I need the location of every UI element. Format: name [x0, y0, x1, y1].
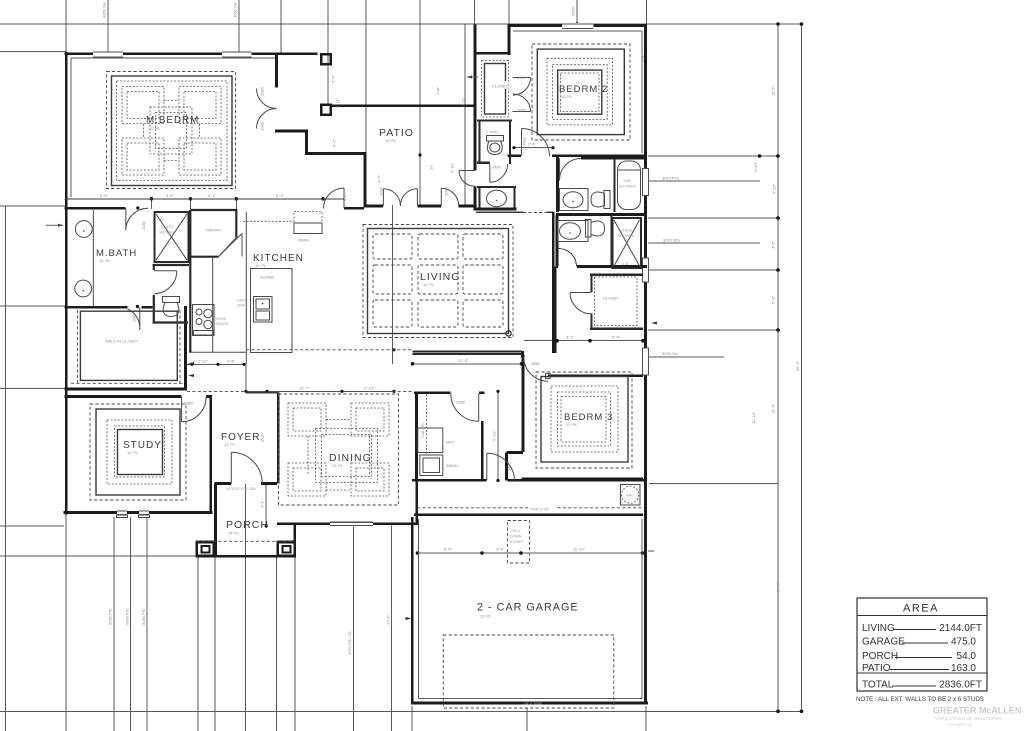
window: right 3010 RSL	[642, 258, 648, 282]
dashed: garage door	[443, 635, 614, 708]
inner face: garage right	[641, 519, 643, 699]
post: patio lower	[321, 105, 331, 115]
window: BEDRM2 north	[562, 23, 594, 29]
dashed: living north opening	[523, 211, 547, 213]
svg-text:10'-7": 10'-7"	[299, 385, 310, 390]
wall: utility west	[415, 393, 418, 481]
wall: M.BEDRM north exterior	[65, 52, 318, 55]
wall: BEDRM3 south	[522, 477, 643, 480]
dim dot top x577	[575, 22, 579, 26]
svg-text:2680: 2680	[522, 136, 527, 146]
dim line: hall row y340.7	[524, 340, 644, 342]
table: GARAGE leader	[902, 642, 948, 644]
svg-text:2080: 2080	[517, 108, 527, 113]
label: CLOSET bedrm3	[601, 293, 621, 301]
ceiling: DINING tray outer dashed	[279, 394, 399, 505]
wall: jog to patio	[305, 152, 367, 155]
dashed: kitchen upper cabinets	[243, 220, 294, 222]
witness line: top x577	[576, 0, 578, 24]
dim line: left at study front	[0, 525, 64, 527]
ceiling: DINING key TL	[288, 403, 326, 436]
witness line: bottom x130.6 study window	[130, 517, 132, 731]
wall: study east	[209, 395, 212, 514]
ceiling: DINING key connectors	[308, 420, 370, 491]
svg-text:4'-7": 4'-7"	[377, 174, 382, 183]
svg-text:SHOWER: SHOWER	[159, 231, 176, 235]
svg-text:21'-8": 21'-8"	[776, 581, 781, 592]
fixture: bath3 glass shower	[613, 218, 642, 268]
wall: hall stub at kitchen door	[344, 207, 364, 210]
wall: bath2 north	[556, 157, 647, 160]
svg-text:GLASS: GLASS	[620, 229, 633, 233]
arrow: garage wall leader	[406, 617, 412, 620]
svg-text:2880: 2880	[531, 361, 541, 366]
svg-text:TIRE STOP: TIRE STOP	[530, 508, 550, 512]
ceiling: BEDRM3 tray wavy	[558, 392, 611, 446]
wall: master WC south	[153, 321, 189, 323]
door: BEDRM2 entry	[522, 129, 550, 157]
svg-text:PULL: PULL	[512, 529, 521, 533]
ceiling: LIVING beam cell r2c1	[373, 265, 412, 294]
svg-text:5'-10": 5'-10"	[772, 183, 777, 194]
dim dots bath hall	[512, 146, 515, 149]
wall: dining front exterior	[277, 522, 419, 525]
witness line: top x366 patio left	[365, 0, 367, 153]
witness line: bottom x65.8	[65, 515, 67, 731]
wall: walk-in closet south	[65, 388, 187, 391]
wall: master WC west	[153, 265, 155, 323]
door: patio single	[441, 188, 458, 206]
table: TOTAL leader	[892, 685, 936, 687]
svg-text:GREATER McALLEN: GREATER McALLEN	[933, 706, 1021, 716]
ceiling: M.BEDRM tray dashed 2	[117, 81, 228, 181]
window: M.BEDRM north 1	[93, 51, 123, 57]
wall: BEDRM2 north exterior	[508, 24, 648, 27]
svg-text:3'-5": 3'-5"	[331, 74, 336, 83]
witness line: front door centre x245.5	[245, 484, 247, 731]
ceiling: BEDRM2 tray wavy	[552, 65, 607, 120]
closet: walk-in shelf face	[80, 311, 177, 380]
dim line: left stub above wall corner	[0, 51, 66, 53]
table: LIVING leader	[893, 629, 936, 631]
ceiling: STUDY tray wavy	[115, 426, 165, 477]
wall: left exterior	[65, 52, 68, 515]
wall: M.BEDRM east	[275, 54, 278, 133]
dashed: bedrm2 closet shelves	[482, 61, 509, 118]
svg-text:2080: 2080	[517, 75, 527, 80]
witness line: top x474	[474, 0, 476, 24]
dim dots master row	[150, 197, 154, 201]
svg-text:DISH: DISH	[237, 299, 246, 303]
svg-text:5060 PIC: 5060 PIC	[141, 608, 146, 625]
wall: powder room east	[513, 187, 515, 210]
ceiling: LIVING beam cell r2c3	[463, 265, 503, 294]
door: hall to patio	[459, 171, 475, 187]
ceiling: BEDRM2 tray dashed2	[547, 58, 613, 125]
ceiling: LIVING solid	[368, 229, 509, 334]
wall: BEDRM2 west	[508, 25, 511, 55]
svg-text:PORCH: PORCH	[226, 519, 269, 531]
ceiling: BEDRM3 tray outer dashed	[536, 372, 632, 468]
dim line: left at master bath top	[0, 205, 66, 207]
svg-text:6'-8": 6'-8"	[444, 547, 453, 552]
svg-text:3080: 3080	[379, 186, 384, 196]
door: bedrm3 closet	[570, 293, 592, 314]
door: bath3 entry	[559, 249, 577, 267]
witness line: bottom x147 study window	[146, 517, 148, 731]
svg-text:10' PL: 10' PL	[385, 138, 397, 143]
witness line: top x66	[65, 0, 67, 53]
svg-text:ISLAND: ISLAND	[260, 275, 275, 280]
sill: study window 1	[117, 515, 128, 518]
svg-text:2080: 2080	[260, 121, 265, 131]
svg-text:CAB ABV: CAB ABV	[421, 422, 425, 438]
wall: powder block closet floor	[477, 119, 512, 121]
wall: dining east	[415, 393, 418, 524]
door: powder wc	[490, 164, 508, 182]
dim dots right column	[776, 22, 780, 26]
table: total line	[857, 672, 987, 674]
dashed: utility cab abv	[426, 394, 428, 455]
svg-text:17'-6": 17'-6"	[386, 614, 391, 625]
wall: study north	[65, 395, 212, 398]
window: study front 2	[139, 510, 149, 515]
dim line: right row y270	[648, 269, 778, 271]
svg-text:2880: 2880	[184, 401, 194, 406]
fixture: bath2 toilet	[591, 191, 610, 209]
ceiling: M.BEDRM key connectors	[144, 101, 200, 161]
door: garage entry	[487, 453, 515, 481]
wall: patio west	[364, 152, 367, 207]
ceiling: LIVING beam cell r3c3	[463, 300, 503, 327]
ceiling: STUDY tray solid	[96, 409, 180, 495]
window: study front 1	[117, 510, 127, 515]
door: M.BEDRM double entry upper leaf	[257, 89, 277, 109]
wall: bath3 west	[556, 215, 559, 267]
svg-text:TOTAL: TOTAL	[862, 680, 894, 691]
wall: utility north	[414, 391, 485, 394]
wall: shower3 west	[610, 215, 612, 269]
svg-text:14'-6": 14'-6"	[771, 403, 776, 414]
svg-text:3080: 3080	[444, 186, 449, 196]
svg-text:WASH: WASH	[446, 463, 458, 468]
wall: patio south with door openings	[364, 204, 477, 207]
wall: hall east of living	[554, 267, 557, 353]
svg-text:10' PL: 10' PL	[423, 282, 435, 287]
wall: foyer east / dining west	[277, 393, 280, 484]
svg-text:SHOWER: SHOWER	[618, 234, 635, 238]
wall: BEDRM2 south	[508, 154, 648, 157]
leader line: left	[46, 224, 62, 226]
dim line: right window 3070 y181	[648, 180, 760, 182]
fixture: kitchen cabinet line south	[189, 351, 246, 353]
ceiling: M.BEDRM key TL	[122, 87, 164, 124]
door: patio french pair leaf L	[383, 189, 400, 206]
door: bedrm2 closet double lower	[513, 94, 531, 112]
table: AREA outline	[857, 598, 987, 691]
svg-text:5'-8": 5'-8"	[260, 433, 265, 442]
svg-text:54.0: 54.0	[957, 651, 977, 662]
svg-text:DOWN: DOWN	[510, 535, 522, 539]
svg-text:8'-2": 8'-2"	[276, 193, 285, 198]
inner face: BEDRM2 right	[641, 31, 643, 153]
wall: powder room west	[479, 187, 481, 209]
wall: wc room west	[479, 121, 481, 165]
fixture: kitchen island	[251, 269, 293, 353]
dashed: garage tire stop	[417, 507, 643, 509]
svg-text:7'-8": 7'-8"	[436, 86, 441, 95]
ceiling: M.BEDRM key BL	[122, 138, 164, 175]
fixture: powder sink	[487, 190, 507, 206]
svg-text:2'-4": 2'-4"	[528, 142, 537, 147]
svg-text:10' PL: 10' PL	[566, 422, 578, 427]
dim line: right window 3010 y243	[648, 242, 760, 244]
ceiling: STUDY tray outer dashed	[90, 404, 186, 500]
witness line: top x108 window	[107, 0, 109, 53]
fixture: bath2 vanity	[560, 189, 589, 211]
svg-text:163.0: 163.0	[951, 663, 976, 674]
inner face: garage left	[418, 519, 420, 699]
svg-text:3050 SH: 3050 SH	[233, 2, 238, 18]
ceiling: LIVING beam cell r1c2	[418, 234, 458, 259]
wall: powder room north	[477, 186, 516, 188]
svg-text:2080: 2080	[141, 220, 146, 230]
witness line: bottom x353 dining window	[352, 526, 354, 731]
svg-text:3'-0": 3'-0"	[771, 240, 776, 249]
svg-text:12' PL: 12' PL	[99, 258, 111, 263]
post: patio upper	[321, 54, 331, 64]
dim line: full-width top string	[0, 23, 802, 25]
svg-text:CLOSET: CLOSET	[492, 84, 509, 89]
wall: hall north of foyer (thin)	[246, 392, 278, 394]
witness line: bottom x295 porch post	[294, 557, 296, 731]
ceiling: DINING key TR	[351, 403, 389, 436]
wall: tub west	[613, 158, 615, 212]
dim line: left at porch bottom	[0, 555, 197, 557]
svg-text:HOOD: HOOD	[216, 317, 227, 321]
svg-text:www.gmar.org: www.gmar.org	[948, 723, 972, 727]
dim line: left at closet/study wall	[0, 388, 66, 390]
svg-text:SINK: SINK	[237, 304, 246, 308]
inner face: BEDRM2 top	[513, 30, 642, 32]
svg-text:2144.0FT: 2144.0FT	[939, 623, 982, 634]
svg-text:10': 10'	[429, 165, 434, 170]
wall: M.BATH north	[65, 207, 126, 210]
ceiling: LIVING beam cell r3c1	[373, 300, 412, 327]
dashed: porch line	[197, 540, 296, 542]
svg-text:2'-8": 2'-8"	[640, 53, 645, 62]
ceiling: M.BEDRM tray solid	[112, 76, 233, 186]
ceiling: M.BEDRM key TR	[179, 87, 221, 124]
wall: living south jamb	[521, 351, 524, 358]
svg-text:5'-4": 5'-4"	[612, 335, 621, 340]
svg-text:3'-2": 3'-2"	[566, 335, 575, 340]
svg-text:12'-5": 12'-5"	[771, 85, 776, 96]
wall: patio right vertical / bath block west	[474, 25, 477, 208]
wall: porch east upper	[293, 524, 296, 556]
dim line: right row y483	[649, 482, 778, 484]
arrow: walkin closet wall leader 2	[188, 374, 194, 377]
inner face: M.BEDRM left	[70, 58, 72, 197]
window: right 3050 SH	[642, 348, 648, 375]
svg-text:3'-8": 3'-8"	[496, 547, 505, 552]
fixture: tub shower	[618, 161, 641, 210]
dim line: full-width bottom string	[0, 710, 802, 712]
witness stem: x236.3	[235, 199, 237, 209]
dim line: right row y218	[648, 217, 778, 219]
arrow: closet leader	[466, 76, 472, 79]
fixture: master wc toilet	[163, 297, 180, 317]
svg-text:2'-10": 2'-10"	[198, 358, 209, 363]
arrow: right wall leader	[651, 322, 657, 325]
inner face: M.BEDRM top	[71, 57, 275, 59]
fixture: kitchen counter west	[212, 257, 214, 352]
leader line: closet	[468, 76, 478, 78]
witness line: bottom garage right wall ext	[645, 706, 647, 731]
svg-text:11'-10": 11'-10"	[751, 411, 756, 424]
svg-text:9'-11": 9'-11"	[335, 98, 340, 108]
dim line: left at master bath bottom	[0, 305, 66, 307]
ceiling: DINING key BR	[351, 463, 389, 496]
fixture: mbath sink 1	[75, 221, 92, 238]
fixture: kitchen counter east	[245, 212, 247, 364]
dim line: hall vertical x498	[497, 391, 499, 480]
window: dining front 4070	[330, 521, 373, 526]
svg-text:RANGE: RANGE	[216, 322, 229, 326]
svg-text:3'-10": 3'-10"	[450, 162, 455, 173]
svg-text:NOTE : ALL EXT. WALLS TO BE 2: NOTE : ALL EXT. WALLS TO BE 2 x 6 STUDS	[856, 696, 984, 703]
witness line: top x646	[646, 0, 648, 24]
svg-text:3050: 3050	[571, 6, 576, 16]
dim line: right inner x778	[777, 24, 779, 711]
svg-text:4070 PIC. GL: 4070 PIC. GL	[347, 630, 352, 655]
ceiling: STUDY tray solid2	[118, 430, 163, 475]
ceiling: LIVING beam cell r1c1	[373, 234, 412, 259]
svg-text:2080: 2080	[260, 86, 265, 96]
svg-text:2680: 2680	[456, 400, 466, 405]
fixture: mbath sink 2	[75, 280, 92, 297]
ceiling: BEDRM3 tray dashed3	[561, 397, 606, 443]
ceiling: M.BEDRM key BR	[179, 138, 221, 175]
svg-text:4'-1": 4'-1"	[260, 499, 265, 508]
fixture: master glass shower	[155, 212, 189, 262]
witness line: bottom x214.8 porch post	[214, 557, 216, 731]
witness line: bottom x197.8 porch post	[197, 557, 199, 731]
svg-text:DRY: DRY	[446, 440, 455, 445]
dim dots foyer hall row	[244, 390, 247, 393]
witness line: bottom x391.7 dining	[391, 526, 393, 731]
inner face: garage bottom	[419, 698, 643, 700]
svg-text:W/ 2070 STR. ABV: W/ 2070 STR. ABV	[226, 487, 257, 491]
door: master closet from bath	[128, 307, 140, 330]
svg-text:4'-0": 4'-0"	[343, 192, 348, 201]
ceiling: BEDRM2 tray dashed3	[561, 73, 600, 112]
wall: garage/hall north	[412, 479, 645, 482]
svg-text:16'-0 6080: 16'-0 6080	[524, 702, 542, 706]
svg-text:3'-8": 3'-8"	[166, 193, 175, 198]
fixture: powder toilet	[487, 136, 504, 155]
witness line: living x392	[391, 205, 393, 364]
dashed: hall line west of living	[246, 349, 412, 351]
fixture: refrigerator	[294, 212, 322, 234]
svg-text:2 - CAR GARAGE: 2 - CAR GARAGE	[477, 602, 579, 614]
ceiling: LIVING beam cell r2c2	[418, 265, 458, 294]
ceiling: LIVING beam cell r1c3	[463, 234, 503, 259]
ceiling: LIVING beam cell r3c2	[418, 300, 458, 327]
fixture: kitchen range	[193, 305, 215, 336]
door: kitchen hall	[324, 188, 345, 208]
wall: bath3 south	[556, 265, 647, 268]
svg-text:5060 PIC: 5060 PIC	[125, 608, 130, 625]
wall: patio north	[331, 104, 476, 107]
witness line: bottom x113.8 study window	[113, 517, 115, 731]
svg-text:5060 PIC: 5060 PIC	[108, 608, 113, 625]
wall: mbedrm corner jog horizontal	[275, 130, 308, 133]
wall: bedrm3 closet south	[590, 328, 643, 330]
wall: bedrm3 west jog	[507, 453, 524, 481]
ceiling: BEDRM2 tray solid2	[558, 70, 602, 114]
ceiling: BEDRM2 tray outer dashed	[532, 44, 630, 140]
fixture: water heater	[621, 485, 641, 506]
wall: porch west	[214, 484, 217, 556]
dim tick: garage row stub y551	[648, 550, 654, 552]
dim dots hall vertical x498	[496, 390, 499, 393]
wall: bedrm3 closet west	[590, 274, 592, 331]
ceiling: DINING key BL	[288, 463, 326, 496]
wall: living south	[412, 352, 522, 355]
svg-text:11'-10": 11'-10"	[573, 547, 586, 552]
door: study entry	[182, 397, 206, 422]
fixture: bath3 toilet	[586, 220, 605, 238]
svg-text:2836.0FT: 2836.0FT	[939, 680, 982, 691]
svg-text:2080: 2080	[132, 312, 137, 322]
wall: walk-in closet east	[184, 306, 187, 389]
wall: M.BEDRM south (thin)	[65, 198, 344, 200]
svg-text:4'-4": 4'-4"	[208, 193, 217, 198]
dim line: garage row y553	[417, 552, 643, 554]
ceiling: STUDY tray dashed2	[107, 420, 172, 484]
post: porch left	[197, 542, 214, 556]
dim dot hall dashes	[392, 348, 395, 351]
dim dots porch vertical	[265, 482, 268, 485]
wall: study front exterior	[64, 511, 213, 514]
ceiling: BEDRM2 tray solid	[537, 49, 624, 135]
door: utility entry	[451, 394, 479, 422]
witness line: top x328	[327, 0, 329, 105]
label: TIRE STOP	[529, 506, 555, 512]
dim dots living opening	[411, 362, 415, 366]
closet: walk-in rod dash right	[179, 310, 181, 384]
dim line: living opening row y363.8	[412, 363, 522, 365]
wall: kitchen west cabinets	[189, 210, 191, 352]
svg-text:65'-6": 65'-6"	[795, 360, 800, 371]
table: PORCH leader	[895, 657, 952, 659]
svg-text:M.BEDRM: M.BEDRM	[146, 115, 199, 126]
window: M.BEDRM north 2	[222, 51, 252, 57]
svg-text:13' PL: 13' PL	[332, 463, 344, 468]
svg-text:PORCH: PORCH	[862, 651, 898, 662]
svg-text:WALK IN CLOSET: WALK IN CLOSET	[105, 339, 139, 344]
svg-text:12'-4": 12'-4"	[458, 358, 469, 363]
wall: BEDRM3 west upper	[522, 355, 525, 452]
svg-text:6'-10": 6'-10"	[492, 430, 497, 441]
table: header line	[857, 615, 987, 617]
closet: walk-in rod dash bottom	[71, 382, 184, 384]
door: M.BEDRM double entry lower leaf	[257, 109, 277, 129]
dim dots garage row	[416, 551, 420, 555]
ceiling: DINING key centre ring	[316, 429, 378, 483]
svg-text:10' PL: 10' PL	[127, 450, 139, 455]
